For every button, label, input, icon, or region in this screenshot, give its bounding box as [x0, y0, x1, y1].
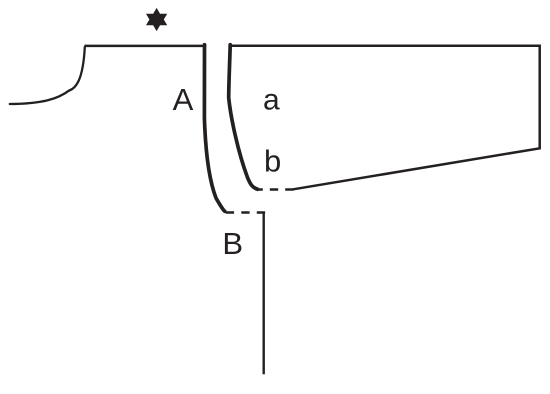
svg-text:b: b — [264, 144, 281, 179]
thick line b (right sulcus wall, solid) — [229, 45, 258, 190]
thick line A (left sulcus wall, solid) — [204, 45, 224, 212]
dashed continuation of A line — [226, 211, 265, 214]
wire: left shape top horizontal line — [84, 45, 206, 48]
wire: left gingival curve rising from left edge — [10, 47, 85, 104]
svg-text:a: a — [263, 83, 280, 116]
svg-text:A: A — [173, 82, 194, 117]
star marker (six-pointed, above left crown margin) — [146, 8, 167, 31]
dashed continuation of b line — [259, 188, 294, 191]
thin vertical line below B junction — [263, 213, 265, 375]
right shape outline: top edge, right edge, sloped bottom edge — [229, 46, 540, 190]
svg-text:B: B — [222, 226, 243, 261]
